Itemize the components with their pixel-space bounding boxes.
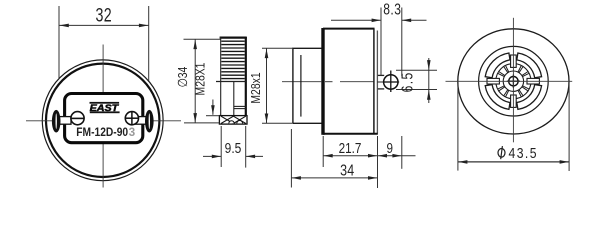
dim 34 left extension line [290, 129, 292, 188]
dim 21.7 right arrow [368, 154, 377, 158]
view4 vertical centerline [512, 18, 514, 143]
terminal bracket bottom [378, 88, 384, 90]
dim 6.5 lower arrow (pointing up) [427, 90, 431, 100]
svg-text:M28X1: M28X1 [194, 63, 208, 96]
right shaft [134, 117, 147, 125]
flange hatch cell 2 [233, 116, 245, 123]
dim 8.3 right extension line [401, 8, 403, 77]
spoke ring outer circle [496, 64, 531, 99]
dim 9.5 dimension line left [203, 155, 221, 157]
dim M28x1 dimension line [266, 48, 268, 123]
dim dia43.5 right arrow [560, 160, 569, 164]
view1 horizontal centerline [26, 120, 181, 122]
dim 6.5 top reference line [396, 69, 437, 71]
body bottom edge [323, 133, 378, 135]
thread lines [221, 41, 244, 78]
dim dia34 top extension line [184, 38, 221, 40]
svg-text:9.5: 9.5 [225, 140, 242, 157]
nipple thread root line [300, 55, 302, 117]
dim 6.5 bottom reference line [396, 89, 437, 91]
left screw slot [71, 117, 85, 119]
dim 32 dimension line [59, 24, 149, 26]
dim dia34 dimension line [194, 39, 196, 123]
svg-text:M28x1: M28x1 [249, 72, 263, 103]
dim 34 left arrow [292, 176, 301, 180]
view1 inner circle [46, 64, 159, 177]
left screw head [71, 112, 84, 125]
svg-text:FM-12D-90: FM-12D-90 [76, 125, 128, 139]
dim M28x1 top extension line [262, 47, 293, 49]
body right shadow line [376, 31, 378, 134]
dim dia43.5 text [498, 145, 538, 161]
left shaft [59, 117, 72, 125]
label plate [65, 94, 143, 143]
dim 8.3 dimension line left [331, 19, 381, 21]
dim M28X1 down arrow [212, 100, 214, 115]
nipple outline [293, 48, 322, 123]
arc slots [485, 53, 541, 109]
dim 8.3 left extension line [380, 8, 382, 76]
thread rect left edge [220, 37, 222, 115]
flange hatch cell 1 [221, 116, 233, 123]
dim 21.7 left arrow [324, 154, 333, 158]
terminal screw cross v [390, 71, 392, 93]
dim dia43.5 right extension line [568, 84, 570, 171]
svg-text:∅34: ∅34 [176, 66, 190, 87]
dim 6.5 dimension line [428, 58, 430, 103]
dim dia43.5 left arrow [458, 160, 467, 164]
dim 8.3 left arrow [372, 19, 381, 23]
dim 9 left arrow [378, 154, 387, 158]
shared extension line (21.7 right / 9 left / 34 right) [377, 136, 379, 188]
thread end extension line [206, 115, 220, 117]
left mounting disc [52, 110, 61, 133]
body front face [321, 28, 324, 135]
right mounting disc [145, 110, 154, 133]
dim 9 right extension line [401, 136, 403, 169]
EAST logo underline [90, 111, 120, 113]
svg-text:8.3: 8.3 [383, 0, 401, 18]
dim M28x1 bottom extension line [262, 122, 293, 124]
dim dia43.5 left extension line [457, 84, 459, 171]
dim 9.5 left extension line [220, 126, 222, 167]
dim dia43.5 dimension line [458, 161, 569, 163]
dim 9.5 dimension line right [246, 155, 263, 157]
svg-text:6.5: 6.5 [398, 71, 416, 92]
dim 8.3 dimension line right [402, 19, 427, 21]
view1 vertical centerline [102, 45, 104, 188]
thread rect top edge [220, 36, 247, 38]
dim 32 left extension line [58, 6, 60, 79]
dim 9 right arrow [392, 154, 401, 158]
dim dia34 down arrow [193, 113, 197, 123]
dim 32 left arrow [59, 24, 69, 28]
dim dia34 bottom extension line [184, 122, 220, 124]
flange outline [219, 116, 247, 125]
dim M28x1 up arrow [265, 49, 269, 59]
EAST logo overline [90, 102, 120, 104]
dim dia34 up arrow [193, 40, 197, 50]
dim 6.5 upper arrow (pointing down) [427, 60, 431, 70]
collar lines [234, 105, 246, 107]
view3 centerline [282, 81, 321, 83]
svg-text:3: 3 [129, 125, 136, 139]
center screw cross [507, 80, 520, 82]
svg-text:43.5: 43.5 [509, 145, 538, 161]
thread rect right edge [245, 37, 247, 115]
dim 34 right arrow [368, 176, 377, 180]
terminal axis line [377, 81, 399, 83]
terminal bracket top [378, 74, 384, 76]
view4 boss circle [479, 46, 549, 116]
svg-text:34: 34 [340, 162, 354, 180]
right screw cross [126, 117, 139, 119]
svg-text:32: 32 [96, 4, 113, 26]
mid divider line [233, 82, 235, 116]
thread end line [216, 81, 246, 83]
view4 horizontal centerline [446, 80, 573, 82]
body top edge [323, 28, 375, 30]
dim 9.5 right extension line [245, 126, 247, 168]
dim 9 dimension line [378, 155, 416, 157]
view4 outer circle [458, 29, 569, 134]
center screw circle [509, 77, 518, 86]
right screw head [125, 112, 138, 125]
dim 8.3 right arrow [402, 19, 411, 23]
dim 34 dimension line [291, 177, 377, 179]
terminal screw cross h [384, 81, 398, 83]
spoke ring inner circle [503, 71, 523, 91]
terminal screw circle [384, 75, 398, 89]
view1 outer circle [42, 60, 163, 181]
spoke lines [498, 66, 529, 97]
dim 21.7 dimension line [323, 155, 377, 157]
dim 32 right arrow [139, 24, 149, 28]
cardinal tabs [487, 55, 539, 107]
svg-text:9: 9 [387, 140, 394, 157]
dim 9.5 right arrow [246, 155, 255, 159]
dim M28x1 down arrow [265, 114, 269, 124]
flange hatch arcs [229, 121, 234, 124]
dim 32 right extension line [148, 6, 150, 82]
dim 9.5 left arrow [212, 155, 221, 159]
body right edge [373, 29, 375, 134]
dim 21.7 left extension line [322, 136, 324, 167]
svg-text:21.7: 21.7 [339, 140, 362, 157]
